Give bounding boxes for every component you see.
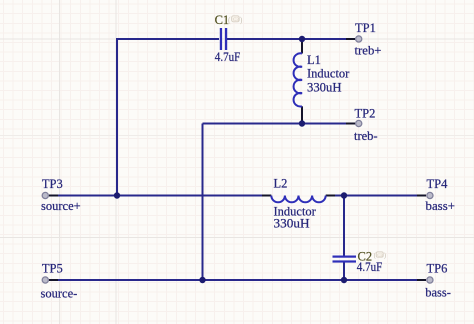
- capacitor C1 plates: [220, 28, 227, 50]
- svg-text:treb-: treb-: [354, 129, 378, 143]
- svg-text:source+: source+: [41, 199, 81, 213]
- svg-text:TP4: TP4: [427, 177, 449, 191]
- junction node at C1 out / L1 top: [299, 36, 305, 42]
- test point TP2 pad: [356, 120, 362, 126]
- pin TP6: [417, 279, 426, 281]
- junction node at riser/source+: [114, 192, 120, 198]
- inductor L2 arcs: [271, 196, 325, 203]
- svg-text:330uH: 330uH: [307, 80, 342, 94]
- svg-text:Inductor: Inductor: [307, 67, 350, 81]
- svg-text:C1: C1: [215, 13, 230, 27]
- pin TP5: [49, 279, 58, 281]
- pin L2 right: [326, 195, 335, 197]
- pin TP2: [346, 123, 355, 125]
- svg-text:TP3: TP3: [42, 177, 63, 191]
- wire top: corner from vertical riser to C1 and on to TP1: [50, 39, 420, 280]
- inductor L1 arcs: [294, 53, 302, 106]
- wire L2 to TP4: [334, 195, 420, 197]
- wire treb- from corner to TP2: [203, 123, 351, 125]
- junction node treb- return on bottom rail: [199, 277, 205, 283]
- test point TP6 pad: [427, 277, 433, 283]
- pin L1 top: [301, 40, 303, 54]
- test point TP5 pad: [42, 277, 48, 283]
- svg-text:C3: C3: [233, 18, 239, 23]
- svg-text:bass-: bass-: [425, 285, 451, 299]
- capacitor C2 plates: [333, 256, 357, 263]
- test point TP4 pad: [427, 192, 433, 198]
- tag (C3) by C1: [228, 15, 243, 24]
- wire source+ TP3 to L2: [50, 195, 263, 197]
- junction node L2 out / C2 branch: [341, 192, 347, 198]
- svg-text:L1: L1: [307, 53, 321, 67]
- svg-text:TP1: TP1: [355, 21, 376, 35]
- junction node at L1 bottom / treb-: [299, 120, 305, 126]
- tag (C3) by C2: [374, 251, 387, 259]
- wire bottom source- to TP6: [50, 279, 420, 281]
- svg-text:TP2: TP2: [355, 106, 376, 120]
- svg-text:330uH: 330uH: [274, 217, 310, 231]
- wire vertical riser from source+ to top: [117, 39, 219, 196]
- svg-text:(: (: [228, 15, 231, 24]
- pin TP4: [417, 195, 426, 197]
- wire vertical treb- return: [202, 124, 204, 281]
- pin TP3: [49, 195, 58, 197]
- pin L1 bottom: [301, 106, 303, 122]
- junction node C2 bottom on rail: [341, 277, 347, 283]
- svg-text:bass+: bass+: [426, 199, 456, 213]
- svg-text:TP5: TP5: [42, 261, 63, 275]
- svg-text:L2: L2: [274, 177, 288, 191]
- svg-text:C3: C3: [377, 252, 383, 257]
- test point TP3 pad: [42, 192, 48, 198]
- svg-text:treb+: treb+: [355, 43, 382, 57]
- svg-text:): ): [240, 15, 243, 24]
- svg-text:C2: C2: [358, 250, 373, 264]
- wire C2 branch down: [343, 196, 345, 256]
- pin TP1: [346, 38, 355, 40]
- svg-text:TP6: TP6: [427, 261, 448, 275]
- pins (black stubs): [49, 39, 426, 280]
- pin L2 left: [262, 195, 271, 197]
- svg-text:source-: source-: [41, 287, 78, 301]
- test point TP1 pad: [356, 36, 362, 42]
- svg-text:4.7uF: 4.7uF: [215, 50, 241, 64]
- wire C1 right to TP1: [227, 38, 350, 40]
